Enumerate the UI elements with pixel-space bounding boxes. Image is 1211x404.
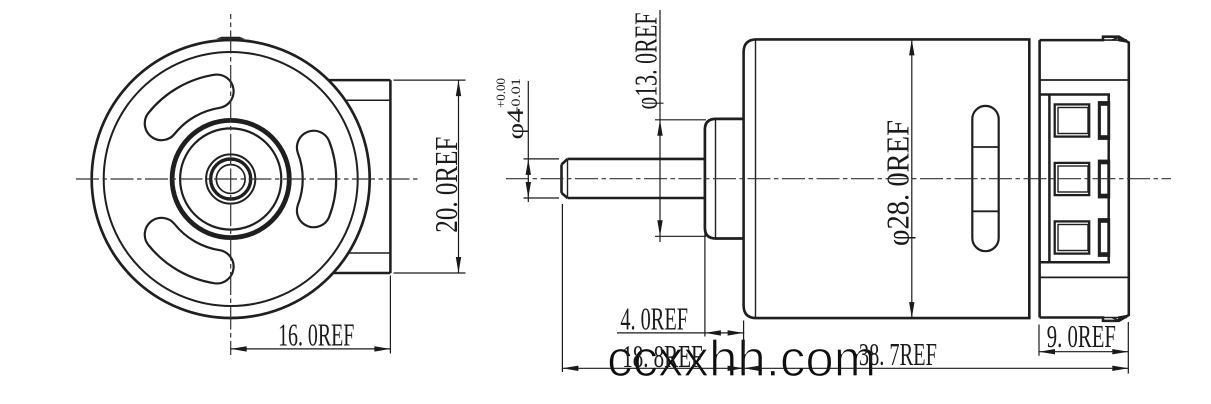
terminal 2 outer frame — [1055, 163, 1090, 195]
20.0REF arrows — [456, 80, 461, 273]
4.0REF extension line left — [704, 229, 706, 337]
phi4 tolerance label — [493, 78, 528, 140]
side view centerline — [506, 178, 1171, 180]
svg-text:18. 8REF: 18. 8REF — [622, 338, 703, 374]
phi4 dimension line — [527, 81, 529, 202]
bracket inner bottom line — [330, 252, 390, 254]
4.0REF arrows — [705, 330, 744, 335]
horizontal centerline — [76, 178, 421, 180]
body capsule slot — [972, 106, 998, 251]
9.0REF extension line left — [1038, 325, 1040, 356]
shaft hub circle — [206, 154, 255, 203]
bearing boss ring — [172, 120, 289, 237]
top tab inner line — [1103, 39, 1127, 41]
flange boss — [705, 119, 743, 239]
svg-text:20. 0REF: 20. 0REF — [428, 137, 464, 233]
flange tangent line — [715, 120, 717, 238]
terminal housing left edge — [1048, 95, 1051, 263]
boss inner circle — [180, 128, 281, 229]
cap left edge — [1038, 40, 1041, 317]
terminal 1 contact block — [1098, 101, 1110, 140]
20.0REF dimension line — [458, 80, 460, 273]
top tab wedge — [1118, 37, 1129, 43]
16.0REF dimension line — [231, 348, 391, 350]
bottom tab wedge — [1118, 315, 1129, 321]
bracket inner top line — [330, 99, 390, 101]
phi13 dimension line — [659, 10, 661, 242]
svg-text:9. 0REF: 9. 0REF — [1047, 318, 1116, 354]
cap outline with tabs — [1040, 37, 1129, 321]
svg-text:φ28. 0REF: φ28. 0REF — [880, 120, 916, 246]
9.0REF arrows — [1039, 349, 1128, 354]
shaft top edge — [568, 158, 705, 161]
cap inner hline bottom — [1040, 276, 1129, 278]
slot right — [297, 131, 336, 228]
4.0REF dimension line — [617, 332, 744, 334]
shaft circle — [216, 165, 245, 194]
body tangent line — [755, 40, 757, 318]
end cap — [1040, 37, 1129, 321]
18.8REF dimension line — [562, 367, 743, 369]
phi28 dimension line — [911, 39, 913, 318]
terminals — [1055, 101, 1111, 257]
phi4 extension line top — [524, 158, 560, 160]
shaft chamfer bottom — [562, 193, 568, 198]
18.8REF arrows — [562, 366, 743, 371]
slot top-left — [145, 75, 234, 141]
cap inner hline top — [1040, 79, 1129, 81]
phi13 extension line bottom — [655, 235, 706, 237]
svg-text:+0.00: +0.00 — [493, 78, 508, 108]
shaft chamfer top — [562, 159, 568, 165]
top tab bump — [216, 37, 245, 39]
dimension phi13 — [655, 10, 706, 242]
dimension 4.0REF — [617, 229, 744, 372]
18.8REF extension line left — [561, 204, 563, 372]
16.0REF extension line right — [389, 276, 391, 354]
terminal housing bottom edge — [1040, 261, 1110, 264]
dimension phi4 — [524, 81, 560, 202]
20.0REF extension line bottom — [394, 272, 466, 274]
20.0REF extension line top — [394, 79, 466, 81]
shaft end face — [560, 165, 563, 193]
motor outer circle — [92, 40, 370, 318]
4.0REF extension line right — [743, 321, 745, 373]
capsule inner line 2 — [972, 210, 998, 212]
terminal 2 contact block — [1098, 160, 1110, 199]
phi4 extension line bottom — [524, 197, 560, 199]
dimension 20.0REF — [394, 80, 466, 273]
16.0REF arrows — [231, 346, 391, 351]
terminal 3 contact block — [1098, 218, 1110, 257]
9.0REF extension line right — [1127, 322, 1129, 374]
bracket top edge — [320, 79, 390, 82]
phi13 arrows — [657, 120, 662, 237]
inner rim circle — [104, 52, 358, 306]
shaft bottom edge — [568, 197, 705, 200]
vertical centerline — [230, 14, 232, 355]
dimension 18.8REF — [562, 204, 743, 372]
terminal housing right edge — [1107, 95, 1110, 263]
38.7REF dimension line — [744, 367, 1129, 369]
front view centerlines — [76, 14, 421, 355]
terminal 3 outer frame — [1055, 221, 1090, 253]
svg-text:φ13. 0REF: φ13. 0REF — [628, 13, 664, 110]
bottom tab inner line — [1103, 317, 1127, 319]
shaft chamfer tangent line — [567, 159, 569, 198]
phi4 arrows — [526, 159, 531, 198]
svg-text:38. 7REF: 38. 7REF — [859, 336, 937, 372]
shaft ring thick — [211, 159, 251, 199]
mounting bracket right edge — [389, 80, 392, 273]
capsule inner line 1 — [972, 146, 998, 148]
slot bottom-left — [145, 218, 234, 284]
motor body — [744, 39, 1030, 318]
terminal housing top edge — [1040, 93, 1110, 96]
top tab diagonal — [1112, 37, 1120, 40]
bracket bottom edge — [320, 272, 390, 275]
dimension 16.0REF — [231, 276, 391, 354]
phi13 extension line top — [655, 119, 706, 121]
9.0REF dimension line — [1039, 351, 1128, 353]
terminal 1 outer frame — [1055, 104, 1090, 136]
bottom tab diagonal — [1112, 318, 1120, 321]
svg-text:-0.01: -0.01 — [508, 78, 523, 112]
dimension 9.0REF — [1039, 322, 1128, 374]
svg-text:4. 0REF: 4. 0REF — [620, 301, 688, 337]
svg-text:16. 0REF: 16. 0REF — [278, 317, 354, 353]
